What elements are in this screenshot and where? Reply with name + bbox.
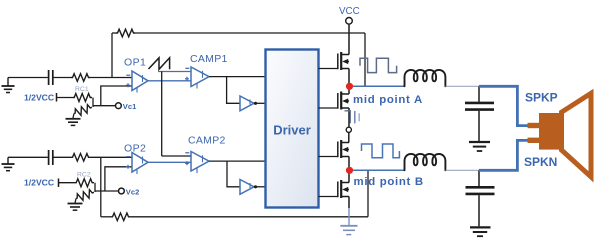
- wire input1 ground to capacitor: [8, 77, 48, 79]
- wire SPKN (thick blue): [479, 140, 529, 170]
- buffer U1B: [240, 96, 254, 111]
- wire carrier shared riser to CAMP2: [161, 72, 163, 157]
- wire input2 ground to capacitor: [8, 156, 48, 158]
- wire buffer U1B to Driver: [254, 102, 266, 104]
- wire bias to OP2 + input: [105, 167, 132, 191]
- wire feedback2 bottom run to mid point B: [130, 216, 368, 218]
- wire carrier into CAMP1 - input: [158, 71, 191, 73]
- node Vc2 terminal circle: [119, 188, 125, 194]
- wire Q4 source down to ground: [348, 197, 350, 209]
- junction dot buffer U1B output: [254, 102, 257, 105]
- svg-text:SPKP: SPKP: [525, 91, 558, 105]
- wire terminal to Q3 drain: [348, 132, 350, 142]
- deadtime pulse glyph: [345, 111, 360, 124]
- svg-text:SPKN: SPKN: [524, 155, 557, 169]
- svg-text:CAMP2: CAMP2: [188, 135, 226, 147]
- wire buffer U2B to Driver: [254, 186, 266, 188]
- svg-text:OP1: OP1: [124, 57, 146, 69]
- wire mid point B to inductor L2 (blue): [353, 169, 405, 171]
- wire VCC to Q1 drain: [348, 24, 350, 54]
- svg-text:mid point A: mid point A: [353, 94, 423, 106]
- wire Rin2 to OP2 inverting input: [90, 156, 132, 158]
- wire feedback2 dropper: [100, 157, 102, 217]
- ground G1 (channel 1 input): [2, 78, 15, 93]
- wire C1 to ground: [478, 111, 480, 141]
- wire Rdiv2 left end down to ground: [75, 199, 76, 204]
- svg-text:VCC: VCC: [339, 6, 360, 17]
- capacitor Cin2: [49, 150, 53, 165]
- arrow Q1 body: [342, 59, 348, 64]
- wire Q1 source to mid point A: [348, 69, 350, 87]
- wire Q2 source down to bridge terminal: [348, 108, 350, 127]
- wire joining RC2 and Rdiv2 right ends: [94, 183, 96, 192]
- capacitor C1 (filter A): [465, 103, 494, 110]
- op-amp OP2: [126, 153, 148, 175]
- wire to Rfb1: [112, 32, 116, 34]
- resistor Rfb2 (channel 2 feedback): [111, 213, 130, 221]
- comparator CAMP2: [185, 152, 209, 174]
- wire Q2 drain up to mid point A: [348, 86, 350, 94]
- resistor Rfb1 (channel 1 feedback): [116, 29, 135, 37]
- wire feedback2 riser to mid point B: [367, 170, 369, 217]
- waveform square wave A: [360, 58, 397, 72]
- resistor RC1: [73, 94, 92, 102]
- wire carrier into CAMP2 - input: [162, 155, 191, 157]
- wire branch down to buffer U2B: [227, 161, 240, 187]
- arrow Q2 body: [342, 98, 348, 103]
- speaker LS1 horn: [562, 93, 592, 177]
- transistor Q3 (high side B): [338, 140, 349, 158]
- resistor Rin2: [71, 154, 90, 162]
- wire divider node to Vc2 terminal: [95, 190, 118, 192]
- svg-text:Vc2: Vc2: [126, 187, 140, 196]
- wire branch down to buffer U1B: [227, 77, 240, 104]
- wire L2 to output node B: [446, 169, 479, 171]
- wire Q3 source to mid point B: [348, 157, 350, 171]
- ground G7 (filter B): [470, 227, 491, 236]
- wire Cin1 to Rin1: [53, 77, 71, 79]
- node VCC terminal circle: [346, 18, 353, 25]
- svg-text:Vc1: Vc1: [123, 102, 137, 111]
- wire mid point A to inductor L1 (blue): [353, 85, 405, 87]
- resistor Rdiv2 (divider lower): [75, 189, 96, 203]
- transistor Q1 (high side A): [338, 52, 349, 70]
- ground G3 (channel 2 input): [2, 157, 15, 170]
- svg-text:RC2: RC2: [77, 172, 91, 179]
- svg-text:1/2VCC: 1/2VCC: [24, 93, 54, 103]
- wire SPKP (thick blue): [479, 86, 529, 125]
- svg-text:OP2: OP2: [124, 143, 146, 155]
- inductor L1: [405, 70, 446, 86]
- junction dot buffer U2B output: [254, 185, 257, 188]
- resistor Rdiv1 (divider lower): [73, 104, 94, 118]
- wire Rdiv1 left end down to ground: [73, 114, 74, 119]
- wire 1/2VCC to RC2: [59, 182, 76, 184]
- wire Cin2 to Rin2: [53, 156, 71, 158]
- speaker terminal SPKP stub: [528, 123, 540, 128]
- wire node B cap lead: [478, 170, 480, 186]
- wire Driver to Q1 gate: [319, 68, 338, 70]
- wire Q4 drain up to mid point B: [348, 170, 350, 182]
- svg-text:1/2VCC: 1/2VCC: [24, 178, 54, 188]
- speaker terminal SPKN stub: [528, 138, 540, 143]
- wire CAMP2 output to Driver: [209, 160, 266, 162]
- node mid point A (red junction): [346, 83, 353, 90]
- wire Driver to Q4 gate: [319, 196, 338, 198]
- resistor RC2: [75, 179, 94, 187]
- wire divider node to Vc1 terminal: [93, 105, 115, 107]
- wire OP2 output to CAMP2 + input (blue): [148, 161, 191, 163]
- wire L1 to output node A: [446, 85, 479, 87]
- svg-text:mid point B: mid point B: [354, 176, 424, 188]
- comparator CAMP1: [185, 67, 209, 89]
- op-amp OP1: [126, 71, 148, 93]
- wire blue segment to power ground: [348, 208, 350, 225]
- node bridge mid terminal circle: [346, 127, 351, 132]
- wire bias to OP1 + input: [101, 86, 132, 106]
- capacitor Cin1: [49, 70, 53, 85]
- ground G2 (under divider 1): [66, 119, 81, 126]
- resistor Rin1: [71, 74, 90, 82]
- terminal bar 1/2VCC ch2: [58, 179, 60, 188]
- ground G5 (power stage, blue): [340, 226, 357, 235]
- ground G4 (under divider 2): [68, 204, 83, 211]
- wire to Rfb2: [101, 216, 111, 218]
- svg-text:RC1: RC1: [75, 86, 89, 93]
- transistor Q2 (low side A): [338, 92, 349, 110]
- wire feedback1 top run to mid point A: [135, 32, 365, 34]
- wire OP1 output to CAMP1 + input (blue): [148, 80, 191, 82]
- ground G6 (filter A): [469, 142, 490, 151]
- arrow Q3 body: [342, 147, 348, 152]
- wire Driver to Q3 gate: [319, 156, 338, 158]
- wire feedback1 drop to mid point A: [364, 33, 366, 86]
- wire joining RC1 and Rdiv1 right ends: [92, 98, 94, 108]
- Driver block U3: [266, 50, 319, 208]
- wire feedback1 riser: [111, 33, 113, 78]
- wire node A cap lead: [478, 86, 480, 102]
- buffer U2B: [240, 180, 254, 195]
- wire CAMP1 output to Driver: [209, 76, 266, 78]
- waveform square wave B: [362, 144, 400, 158]
- capacitor C2 (filter B): [466, 187, 495, 194]
- sawtooth carrier symbol: [149, 58, 170, 70]
- terminal bar 1/2VCC ch1: [56, 93, 58, 102]
- svg-text:Driver: Driver: [273, 123, 311, 138]
- wire C2 to ground: [478, 195, 480, 226]
- speaker LS1 body: [539, 113, 562, 150]
- wire Driver to Q2 gate: [319, 107, 338, 109]
- wire Rin1 to OP1 inverting input, junction with feedback: [90, 77, 132, 79]
- arrow Q4 body: [342, 187, 348, 192]
- svg-text:CAMP1: CAMP1: [190, 53, 228, 65]
- transistor Q4 (low side B): [338, 180, 349, 198]
- wire 1/2VCC to RC1: [57, 97, 74, 99]
- node Vc1 terminal circle: [116, 103, 122, 109]
- inductor L2: [405, 154, 446, 170]
- node mid point B (red junction): [346, 167, 353, 174]
